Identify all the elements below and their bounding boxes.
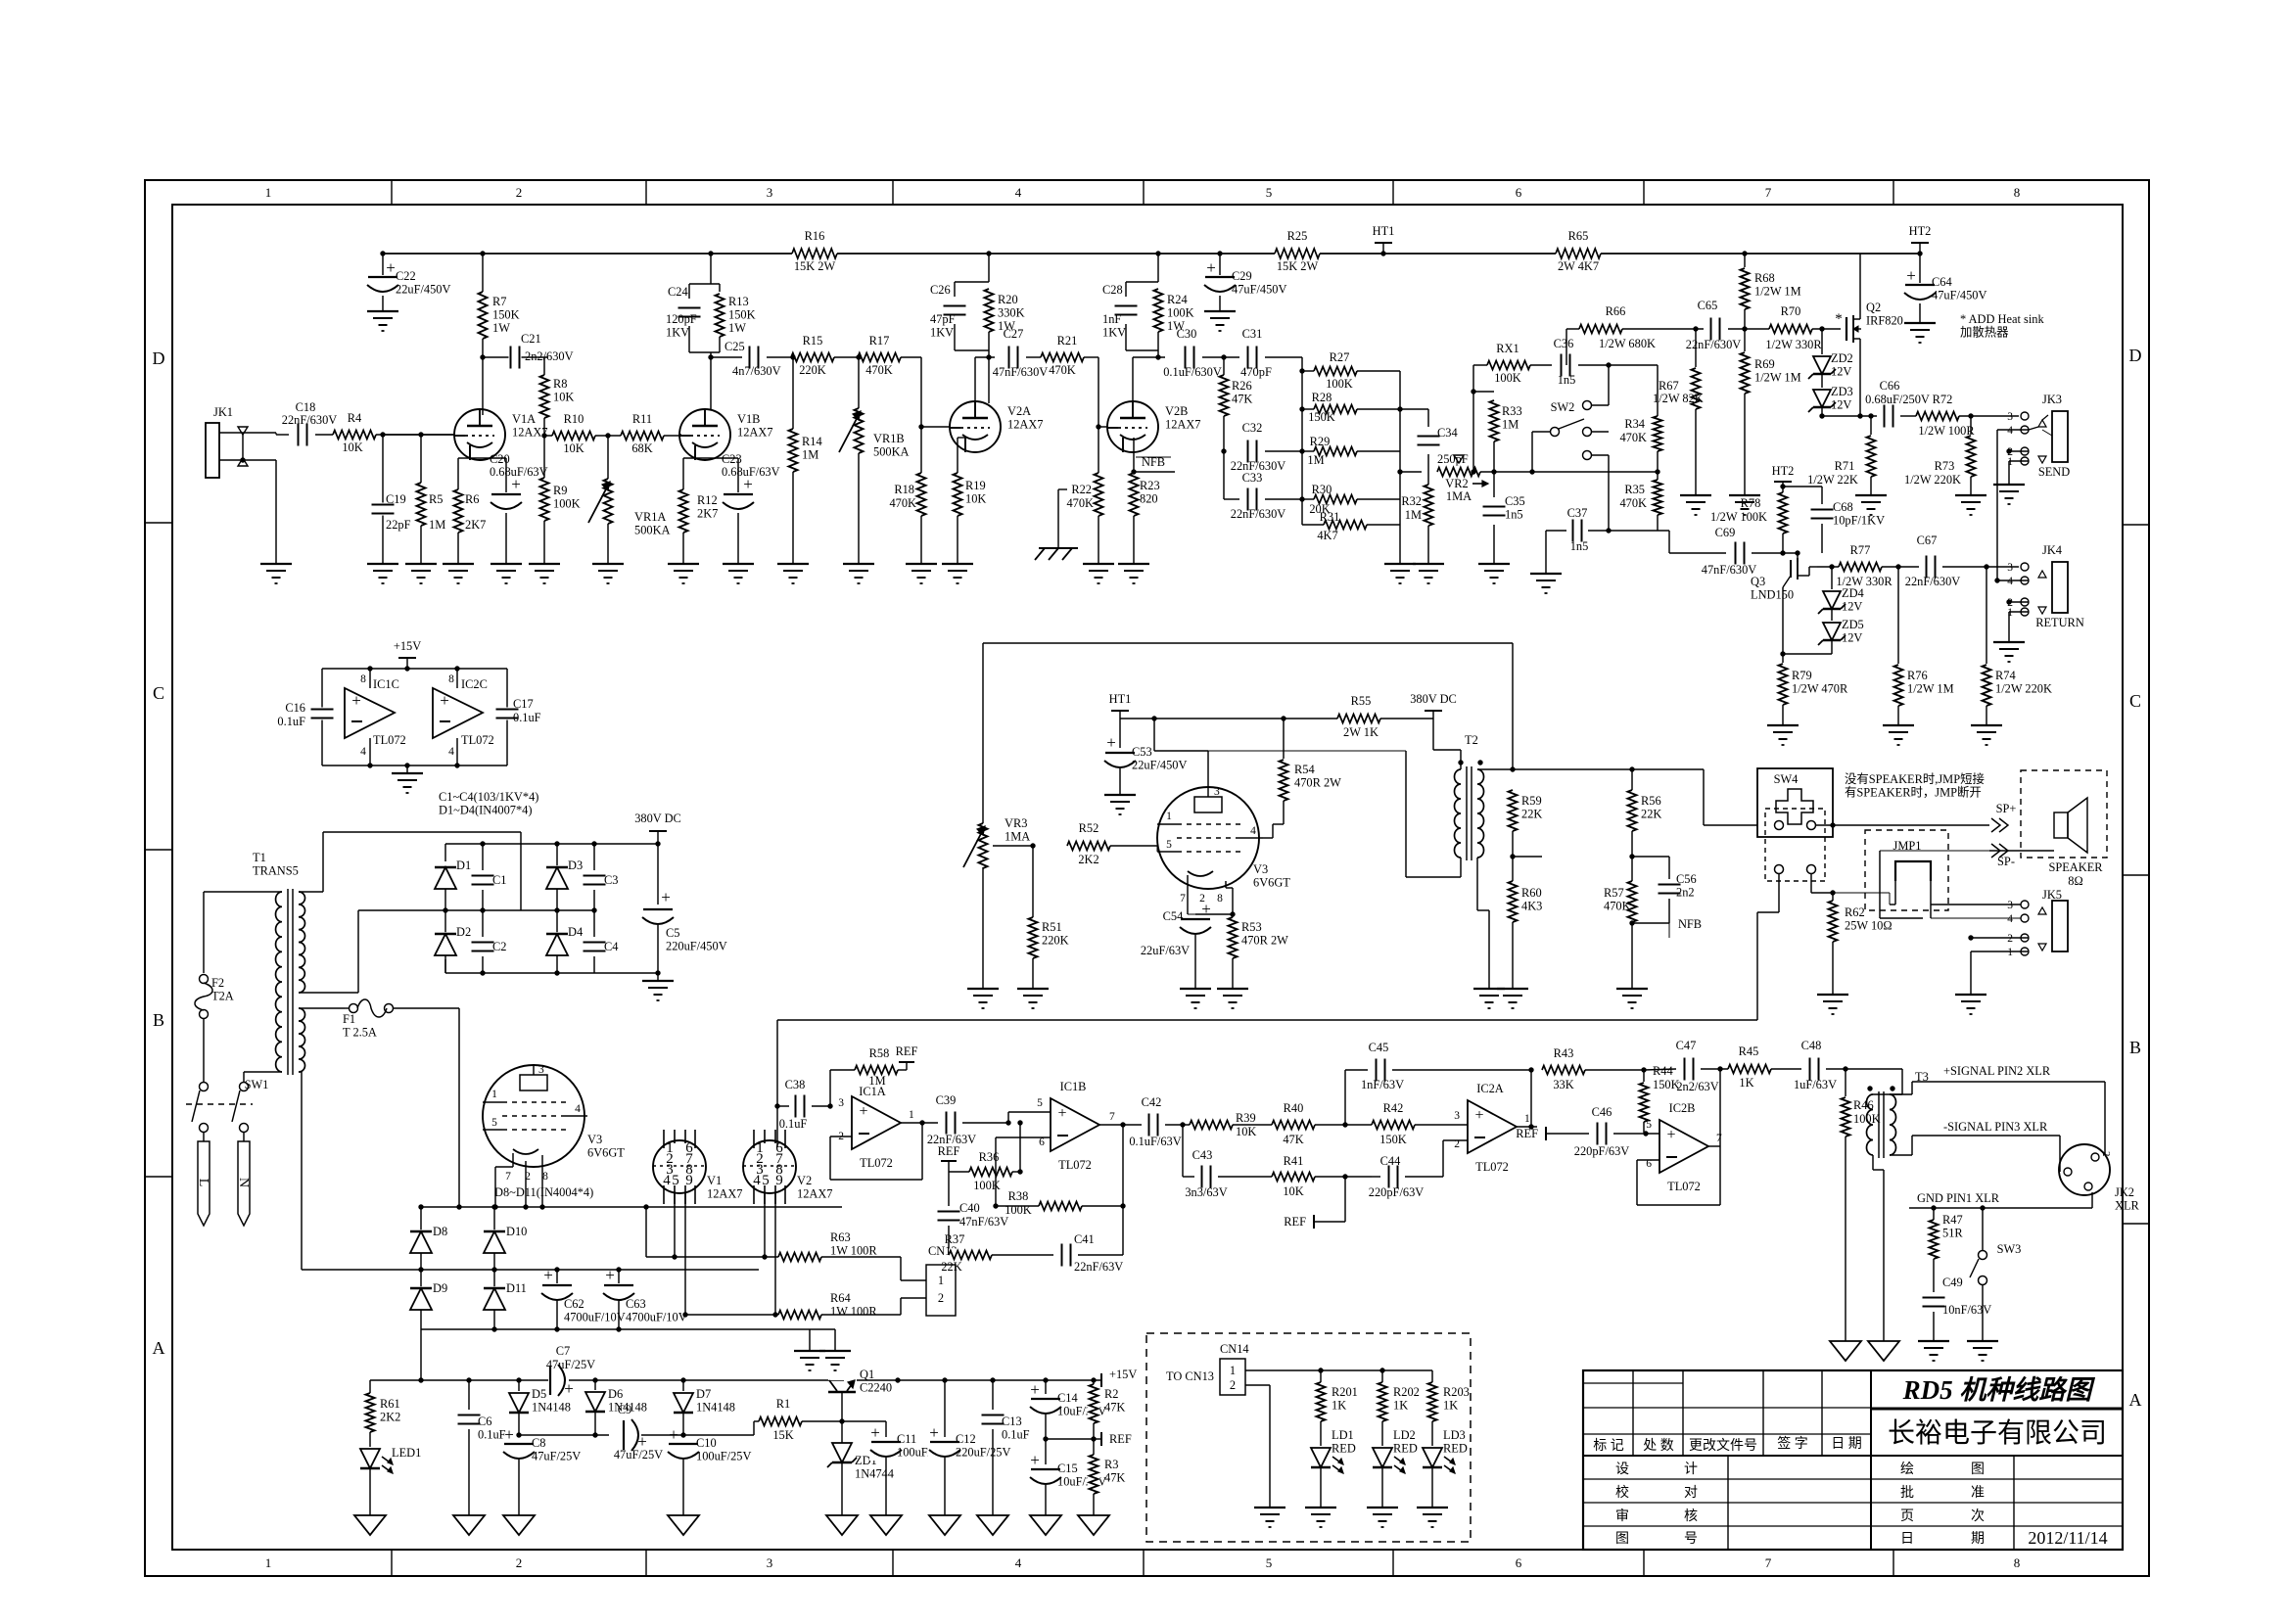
svg-text:L: L [196,1179,210,1187]
wire T2 primary bottom to V3 plate [1460,858,1462,877]
wire grid V1A [383,434,454,436]
svg-text:2n2: 2n2 [1676,886,1695,900]
svg-text:VR1A: VR1A [634,510,666,524]
svg-text:C2240: C2240 [860,1381,892,1395]
capacitor C24 and resistor R13 [710,254,712,284]
resistor R59 [1507,790,1519,831]
capacitor C65 [1709,317,1722,342]
opamp IC2C [454,666,459,671]
ground C64 [1904,322,1936,324]
svg-text:LED1: LED1 [392,1446,421,1460]
resistor R53 [1225,881,1227,888]
resistor R68 [1742,251,1747,255]
svg-text:C27: C27 [1004,327,1024,341]
svg-text:T2: T2 [1465,733,1478,747]
capacitor C5 [657,844,659,905]
node HT2 [1917,251,1922,255]
wire V2B plate [1132,357,1134,401]
svg-text:D2: D2 [456,925,471,939]
capacitor C41 [1060,1243,1073,1268]
capacitor C7 [548,1364,569,1397]
svg-text:2W 1K: 2W 1K [1343,725,1379,739]
resistor R43 [1542,1064,1585,1077]
svg-text:220uF/450V: 220uF/450V [666,940,727,953]
ground JK4 [1993,641,2025,643]
capacitor C39 [945,1111,958,1136]
svg-text:47K: 47K [1283,1133,1303,1146]
svg-text:1N4148: 1N4148 [532,1401,571,1415]
ground R51 [1017,988,1049,990]
svg-text:加散热器: 加散热器 [1960,325,2009,340]
svg-text:47uF/450V: 47uF/450V [1232,283,1287,297]
svg-text:C65: C65 [1698,299,1718,312]
wire tone out line [1593,471,1658,473]
svg-text:R79: R79 [1792,669,1812,682]
svg-text:4: 4 [448,746,454,758]
svg-text:C2: C2 [492,940,506,953]
wire T2 secondary top line [1477,768,1704,770]
svg-text:REF: REF [1109,1432,1132,1446]
resistor R26 [1223,357,1225,451]
resistor R51 [1032,846,1034,917]
wire socket V2 pin up to sense [774,1103,779,1108]
wire Q1 base node to C11 [842,1420,886,1422]
svg-text:R22: R22 [1071,483,1092,496]
svg-text:+: + [1474,1107,1483,1124]
wire heater rail [370,1379,844,1381]
resistor R41 [1272,1171,1315,1183]
resistor R12 and capacitor C23 [694,445,696,458]
svg-text:+: + [1106,733,1116,752]
svg-text:7: 7 [1765,1555,1772,1570]
svg-text:IC1B: IC1B [1060,1080,1087,1093]
svg-text:C63: C63 [626,1297,646,1311]
capacitor C26 and resistor R20 [988,254,990,282]
svg-text:1K: 1K [1739,1076,1753,1090]
svg-text:1: 1 [491,1089,497,1100]
wire to IC1B pin5 [1005,1120,1010,1125]
svg-text:3n3/63V: 3n3/63V [1185,1185,1227,1199]
potentiometer VR3 [982,643,984,825]
resistor R58 [829,1070,831,1106]
ground R69 [1729,494,1760,496]
svg-text:150K: 150K [492,308,520,322]
ground C37 [1530,573,1562,575]
svg-text:+: + [1030,1380,1040,1399]
svg-text:10K: 10K [563,441,584,455]
svg-text:日 期: 日 期 [1831,1436,1862,1452]
svg-text:C19: C19 [386,492,406,506]
opamp IC1A [852,1096,901,1149]
resistor R202 [1381,1370,1383,1382]
svg-text:C11: C11 [897,1432,916,1446]
svg-text:1n5: 1n5 [1558,373,1576,387]
svg-text:IC1C: IC1C [373,677,399,691]
svg-text:NFB: NFB [1678,917,1702,931]
resistor R70 [1769,323,1812,336]
svg-text:LD1: LD1 [1332,1428,1354,1442]
svg-text:D3: D3 [568,858,583,872]
zener ZD5 [1831,609,1833,621]
svg-text:22nF/630V: 22nF/630V [1905,575,1961,588]
svg-text:8: 8 [2014,1555,2021,1570]
svg-text:C49: C49 [1942,1276,1963,1289]
wire JK4 pin4 from bus [1997,580,2029,581]
svg-text:有SPEAKER时，JMP断开: 有SPEAKER时，JMP断开 [1845,785,1982,800]
svg-text:4K3: 4K3 [1521,900,1542,913]
resistor R77 [1839,561,1882,574]
svg-text:R60: R60 [1521,886,1542,900]
svg-text:8: 8 [2014,185,2021,200]
jumper JMP1 [1865,830,1948,910]
svg-text:4: 4 [575,1103,581,1115]
wire sense line to preamp [1778,874,1780,912]
svg-text:15K 2W: 15K 2W [1277,259,1319,273]
svg-text:LD2: LD2 [1393,1428,1416,1442]
capacitor C29 [1219,254,1221,311]
svg-text:C15: C15 [1057,1462,1078,1475]
capacitor C33 [1246,487,1259,512]
capacitor C43 [1182,1125,1184,1177]
svg-text:C1~C4(103/1KV*4): C1~C4(103/1KV*4) [439,790,538,804]
opamp IC2B [1659,1120,1708,1173]
svg-text:F2: F2 [211,976,224,990]
capacitor C36 [1560,353,1572,378]
svg-text:ZD2: ZD2 [1831,351,1853,365]
REF flag R58 [906,1062,908,1070]
svg-text:R77: R77 [1850,543,1871,557]
svg-text:4: 4 [2007,576,2013,587]
capacitor C22 [382,254,384,311]
svg-text:4n7/630V: 4n7/630V [732,364,781,378]
svg-text:22uF/63V: 22uF/63V [1141,944,1190,957]
svg-text:0.1uF/630V: 0.1uF/630V [1163,365,1222,379]
svg-text:+: + [386,258,396,277]
svg-text:ZD4: ZD4 [1842,586,1864,600]
svg-text:4: 4 [1250,825,1256,837]
capacitor C18 [297,423,309,447]
svg-text:5: 5 [1166,839,1172,851]
svg-text:R5: R5 [429,492,443,506]
svg-text:+: + [1201,900,1211,918]
resistor RX1 [1473,364,1487,366]
tube V1B [679,409,730,460]
svg-text:R43: R43 [1554,1046,1574,1060]
diode D11 [493,1270,495,1288]
wire IC2B output up [1708,1145,1720,1147]
svg-text:3: 3 [838,1097,844,1109]
wire IC1A output [901,1122,938,1124]
diode D5 [518,1380,520,1392]
ground C5 [642,980,674,982]
svg-text:470K: 470K [1604,900,1631,913]
svg-text:0.68uF/250V: 0.68uF/250V [1865,393,1930,406]
svg-text:号: 号 [1684,1532,1698,1547]
wire IC2A pin2 feedback [1442,1140,1444,1177]
svg-text:8: 8 [448,673,454,685]
svg-text:1/2W 470R: 1/2W 470R [1792,682,1848,696]
svg-text:22nF/630V: 22nF/630V [282,413,338,427]
capacitor C48 [1808,1057,1821,1082]
svg-text:1K: 1K [1393,1399,1408,1413]
ground opamp block [406,766,408,773]
capacitor C27 [1007,346,1020,370]
svg-text:R19: R19 [965,479,986,492]
svg-text:6: 6 [1516,185,1522,200]
resistor R4 [333,429,376,441]
svg-text:R39: R39 [1236,1111,1256,1125]
svg-text:IC2B: IC2B [1669,1101,1696,1115]
svg-text:2012/11/14: 2012/11/14 [2028,1528,2107,1548]
svg-text:C53: C53 [1132,745,1152,759]
wire V2A plate to C27 [974,357,976,403]
resistor R8 [543,357,545,436]
svg-text:2W 4K7: 2W 4K7 [1558,259,1599,273]
svg-text:JK1: JK1 [213,405,233,419]
capacitor C47 [1644,1069,1676,1070]
svg-text:N: N [236,1178,251,1187]
svg-text:C25: C25 [724,340,745,353]
svg-text:TO CN13: TO CN13 [1166,1369,1214,1383]
svg-text:C12: C12 [956,1432,976,1446]
svg-text:22nF/630V: 22nF/630V [1686,338,1742,351]
svg-text:D8~D11(IN4004*4): D8~D11(IN4004*4) [494,1185,593,1199]
svg-text:D1: D1 [456,858,471,872]
svg-text:R66: R66 [1606,304,1626,318]
svg-text:R76: R76 [1907,669,1928,682]
svg-text:1KV: 1KV [1102,326,1126,340]
transformer T1 primary [275,892,282,1072]
svg-text:C3: C3 [604,873,618,887]
svg-text:REF: REF [1284,1215,1306,1229]
resistor R44 [1641,1067,1646,1072]
ground C54 [1180,988,1211,990]
resistor R9 [543,436,545,564]
ground R23 [1118,563,1149,565]
svg-text:1N4744: 1N4744 [855,1467,894,1481]
ground C6 [453,1515,485,1535]
ground R53 [1217,988,1248,990]
svg-text:R45: R45 [1739,1044,1759,1058]
svg-text:22nF/630V: 22nF/630V [1231,507,1286,521]
svg-text:D6: D6 [608,1387,623,1401]
svg-text:820: 820 [1140,492,1158,506]
svg-text:核: 核 [1684,1508,1698,1524]
ground R3 [1078,1515,1109,1535]
svg-text:C46: C46 [1592,1105,1612,1119]
svg-text:7: 7 [1180,893,1186,905]
svg-text:R10: R10 [564,412,584,426]
potentiometer VR1A [607,436,609,564]
capacitor C32 [1246,440,1259,464]
svg-text:TL072: TL072 [461,733,494,747]
tube V2A [950,401,1001,452]
resistor R76 [1895,564,1900,569]
capacitor C19 [382,435,384,564]
resistor R52 [1067,840,1110,853]
svg-text:JK3: JK3 [2042,393,2062,406]
svg-text:47uF/25V: 47uF/25V [614,1448,663,1462]
+15V flag bottom [1100,1379,1102,1381]
svg-text:R62: R62 [1845,905,1865,919]
svg-text:TRANS5: TRANS5 [253,864,299,878]
wire Q2 source node [1822,415,1877,417]
svg-text:1: 1 [265,185,272,200]
svg-text:22K: 22K [1521,808,1542,821]
resistor R16 on rail [792,247,837,260]
svg-text:V3: V3 [1253,862,1268,876]
resistor R32 [1427,454,1429,564]
svg-text:校: 校 [1615,1484,1629,1501]
capacitor C68 [1780,484,1785,488]
resistor R74 [1984,564,1988,569]
speaker SPEAKER 8ohm [2021,770,2107,858]
svg-text:C45: C45 [1369,1041,1389,1054]
svg-text:9: 9 [685,1173,693,1188]
svg-text:6: 6 [1039,1137,1045,1148]
svg-text:1nF: 1nF [1102,312,1121,326]
svg-text:47uF/25V: 47uF/25V [546,1358,595,1371]
svg-text:220pF/63V: 220pF/63V [1369,1185,1425,1199]
svg-text:47nF/630V: 47nF/630V [993,365,1049,379]
svg-text:1KV: 1KV [930,326,954,340]
wire R54 to screen pin4 [1263,837,1273,839]
svg-text:R74: R74 [1995,669,2016,682]
svg-text:470K: 470K [1619,431,1647,444]
diode D8 [420,1207,422,1231]
resistor R39 [1190,1119,1233,1132]
svg-text:1: 1 [265,1555,272,1570]
svg-text:C40: C40 [959,1201,980,1215]
svg-text:1: 1 [2007,947,2013,958]
svg-text:HT1: HT1 [1373,224,1395,238]
svg-text:250pF: 250pF [1437,452,1469,466]
svg-text:C43: C43 [1192,1148,1213,1162]
svg-text:3: 3 [1214,786,1220,798]
capacitor C21 [483,356,548,358]
svg-text:C44: C44 [1380,1154,1401,1168]
resistor R62 [1830,890,1835,895]
capacitor C34 [1427,409,1429,427]
svg-text:R56: R56 [1641,794,1661,808]
wire SW4 out to speaker [1816,824,1833,826]
svg-text:2K2: 2K2 [1078,853,1098,866]
ground R12 [668,563,699,565]
wire IC1A pin2 feedback [830,1136,852,1137]
svg-text:R21: R21 [1057,334,1078,348]
resistor R67 [1693,326,1698,331]
svg-text:7: 7 [1765,185,1772,200]
svg-text:6: 6 [1516,1555,1522,1570]
svg-text:470pF: 470pF [1240,365,1272,379]
svg-text:68K: 68K [631,441,652,455]
resistor R29 [1302,450,1314,452]
capacitor C40 [937,1210,961,1223]
svg-text:10K: 10K [1236,1125,1256,1138]
svg-text:100K: 100K [1005,1203,1032,1217]
svg-text:1M: 1M [1502,418,1519,432]
svg-text:IRF820: IRF820 [1866,314,1903,328]
resistor R36 [949,1171,969,1173]
resistor R11 [608,435,681,437]
wire +SIGNAL PIN2 XLR [1890,1093,1912,1095]
capacitor C16 [310,708,335,720]
svg-text:-SIGNAL PIN3 XLR: -SIGNAL PIN3 XLR [1943,1120,2048,1134]
svg-text:C47: C47 [1676,1039,1697,1052]
svg-text:0.1uF: 0.1uF [277,715,305,728]
ground C12 [929,1515,960,1535]
svg-text:R58: R58 [869,1046,890,1060]
svg-text:1W: 1W [492,321,510,335]
svg-text:1M: 1M [1405,508,1422,522]
svg-text:长裕电子有限公司: 长裕电子有限公司 [1888,1417,2107,1449]
wire V3 plate to HT1 [1207,751,1209,787]
wire CN14 pin2 ground [1245,1384,1270,1386]
svg-text:12AX7: 12AX7 [707,1187,742,1201]
svg-text:R28: R28 [1312,391,1332,404]
svg-text:1/2W 100R: 1/2W 100R [1918,424,1975,438]
svg-text:500KA: 500KA [634,524,671,537]
svg-text:10K: 10K [342,441,362,454]
svg-text:C6: C6 [478,1415,491,1428]
resistor R7 [482,254,484,415]
svg-text:1MA: 1MA [1005,830,1030,844]
ground T2 secondary [1473,988,1505,990]
svg-text:5: 5 [1266,185,1273,200]
svg-text:F1: F1 [343,1012,355,1026]
svg-text:C24: C24 [668,285,688,299]
svg-text:+SIGNAL PIN2 XLR: +SIGNAL PIN2 XLR [1943,1064,2051,1078]
svg-text:9: 9 [775,1173,783,1188]
capacitor C14 [1045,1380,1047,1394]
node HT2 lower [1774,481,1792,483]
ground R22 [1083,563,1114,565]
svg-text:B: B [2129,1038,2141,1057]
svg-text:SPEAKER: SPEAKER [2048,860,2103,874]
capacitor C31 [1246,346,1259,370]
svg-text:470R 2W: 470R 2W [1241,934,1288,948]
tube V3 heater view [483,1065,584,1167]
svg-text:15K: 15K [772,1428,793,1442]
svg-text:8: 8 [1217,893,1223,905]
svg-text:V1A: V1A [512,412,536,426]
svg-text:C67: C67 [1917,534,1938,547]
svg-text:150K: 150K [728,308,756,322]
svg-text:R72: R72 [1933,393,1953,406]
svg-text:51R: 51R [1942,1227,1963,1240]
svg-text:C34: C34 [1437,426,1458,440]
svg-text:2: 2 [2007,933,2013,945]
capacitor C11 [869,1440,903,1461]
capacitor C44 [1372,1176,1380,1178]
capacitor C9 [519,1434,609,1436]
svg-text:准: 准 [1971,1485,1985,1501]
svg-text:ZD5: ZD5 [1842,618,1864,631]
svg-text:V2A: V2A [1007,404,1031,418]
svg-text:R63: R63 [830,1230,851,1244]
svg-text:12AX7: 12AX7 [1007,418,1043,432]
ground C20 [491,563,522,565]
svg-text:RED: RED [1332,1442,1356,1456]
ground C19 [367,563,398,565]
resistor R37 [949,1249,992,1262]
svg-text:A: A [2129,1390,2142,1410]
ground C8 [503,1515,535,1535]
svg-text:+: + [870,1423,880,1442]
svg-text:C5: C5 [666,926,679,940]
svg-text:C62: C62 [564,1297,584,1311]
svg-text:R68: R68 [1754,271,1775,285]
